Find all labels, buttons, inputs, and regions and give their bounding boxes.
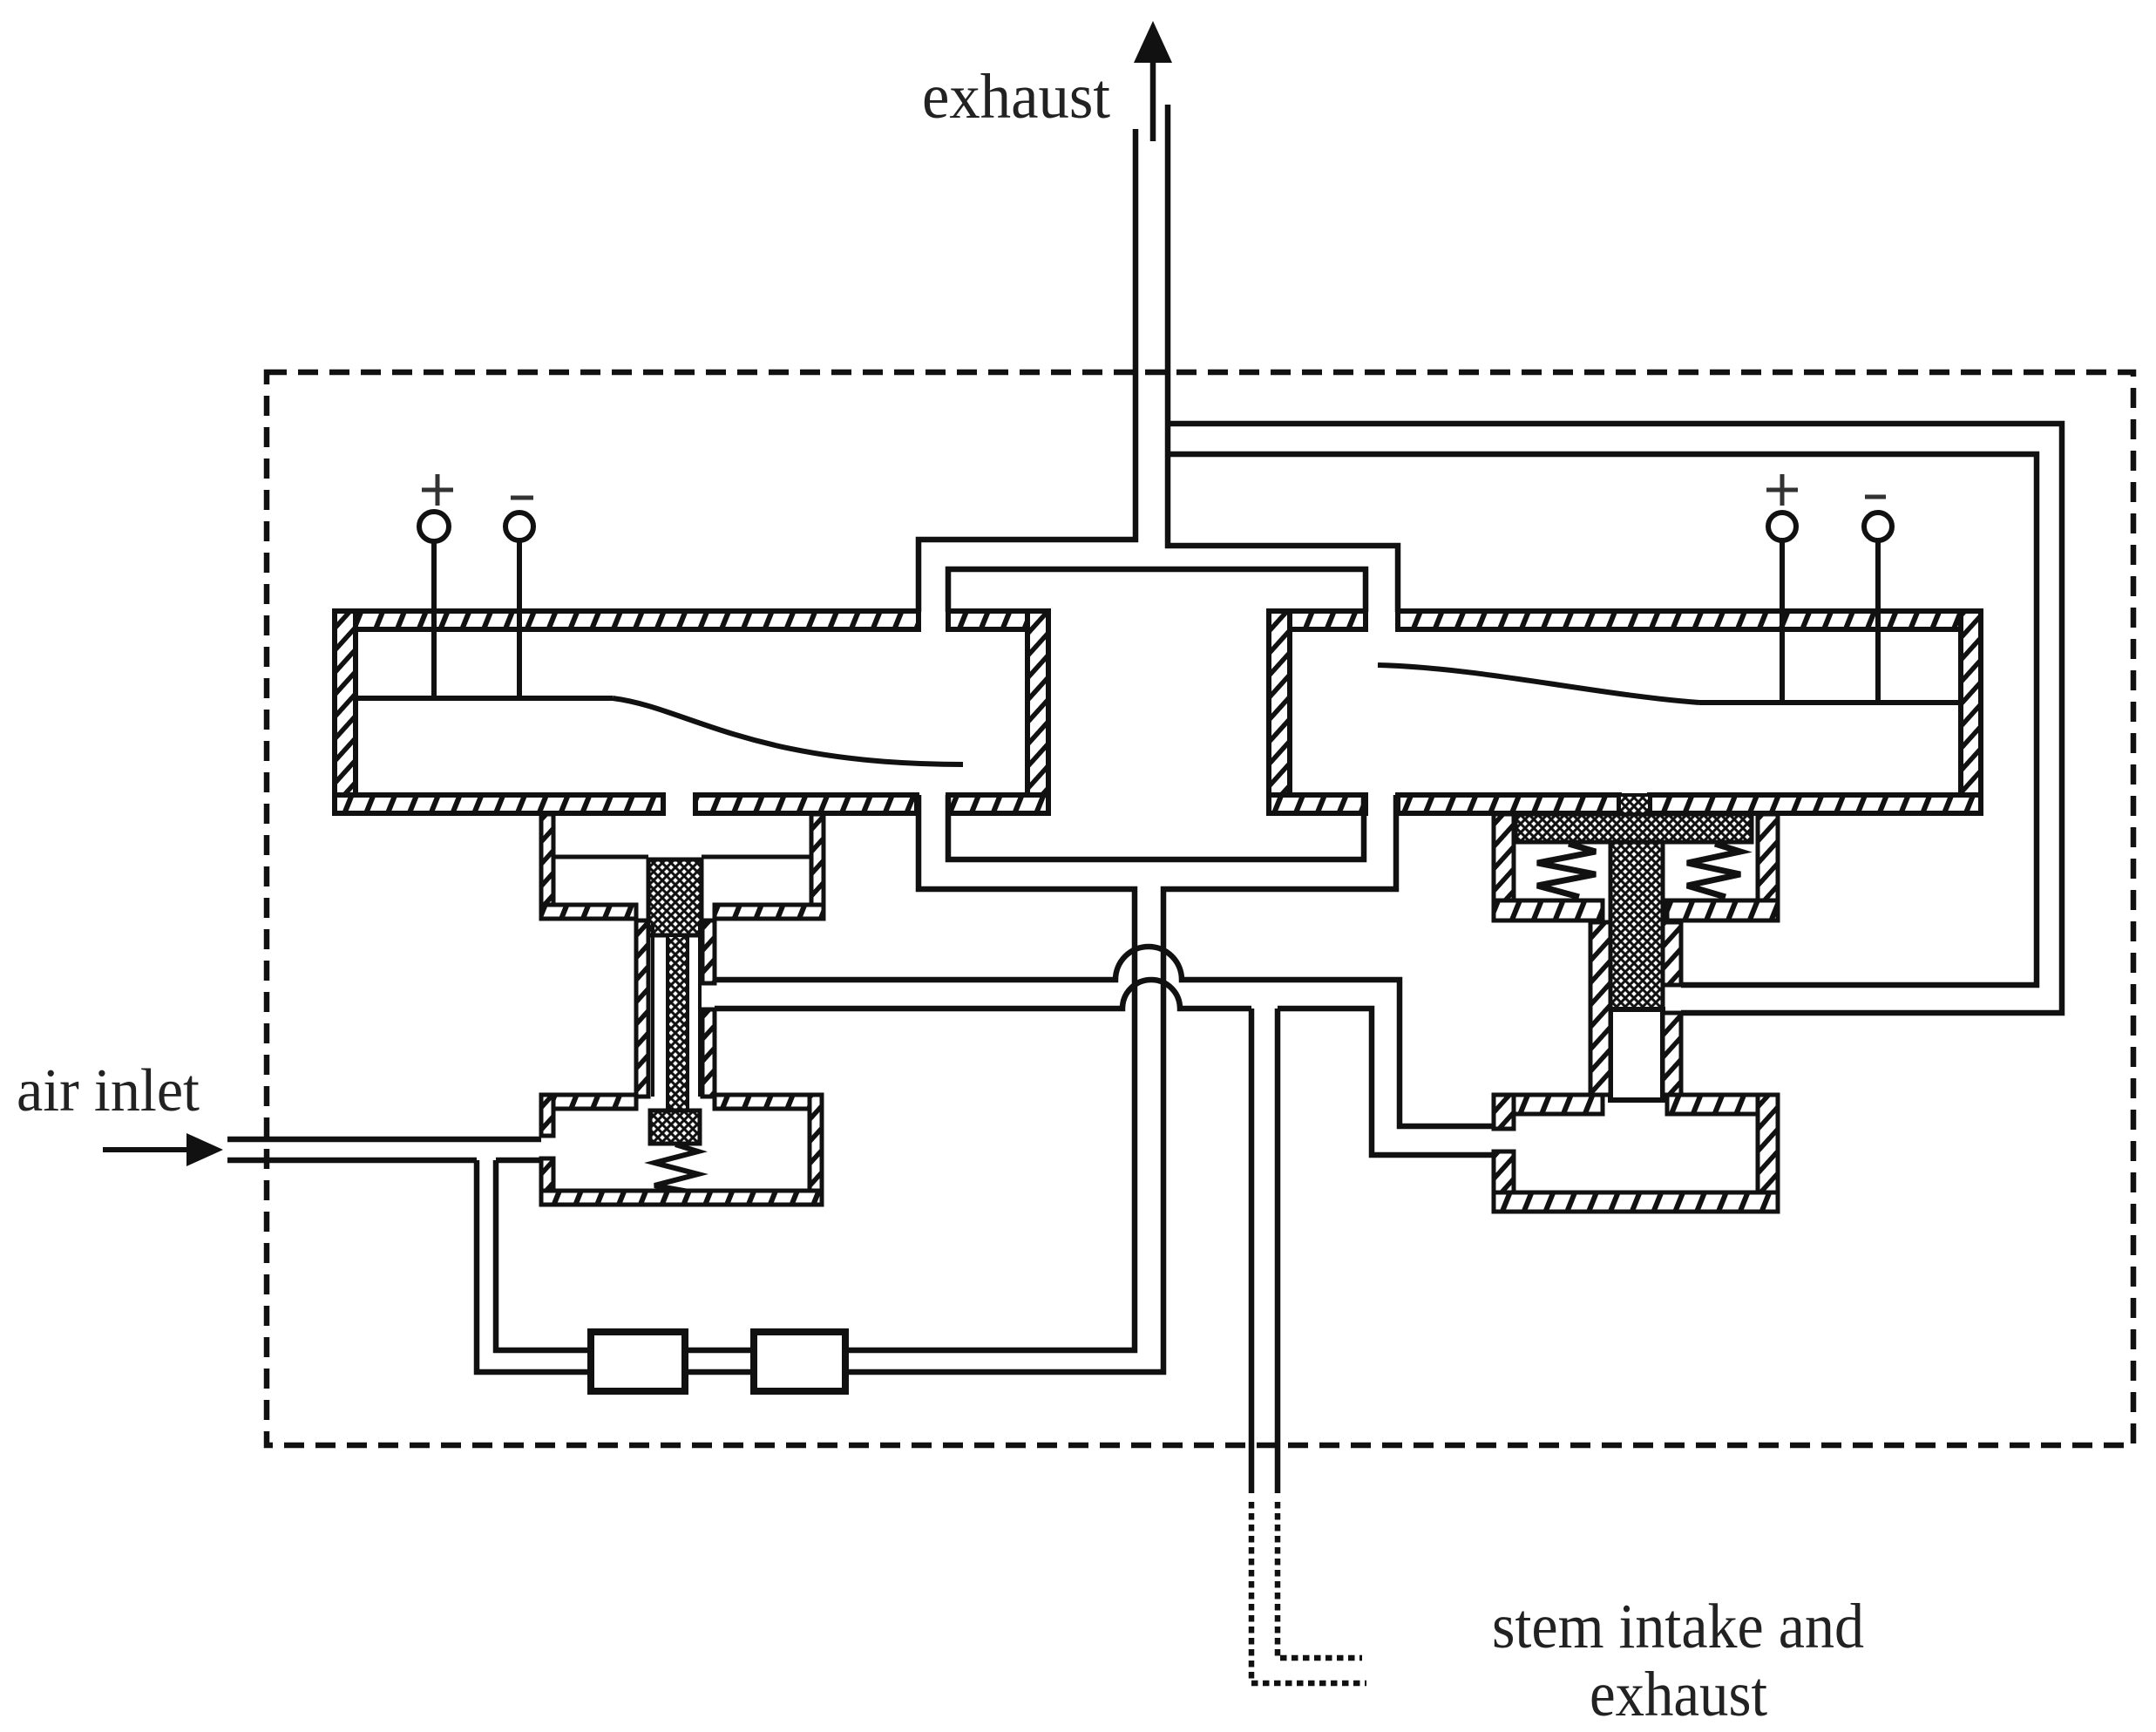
right terminal - circle <box>1864 513 1892 540</box>
restrictor 2 <box>754 1332 845 1391</box>
left terminal + circle <box>419 512 449 541</box>
air inlet pipe top wall <box>227 1137 541 1143</box>
left stem guide right upper <box>702 920 715 983</box>
left diaphragm plate right <box>702 855 811 859</box>
air inlet pipe bottom wall right <box>496 1158 541 1164</box>
left chamber right wall <box>1027 611 1048 813</box>
right lower chamber left wall lower <box>1494 1151 1514 1212</box>
left air chamber right wall <box>810 1095 822 1205</box>
stem pipe right wall <box>1275 1009 1281 1493</box>
left diaphragm plate left <box>553 855 648 859</box>
left stem guide right lower <box>702 1009 715 1097</box>
left terminal - circle <box>505 513 533 540</box>
left flapper curve <box>613 698 963 764</box>
right plunger stem <box>1610 842 1663 1009</box>
svg-text:exhaust: exhaust <box>1590 1659 1767 1729</box>
left chamber top wall right piece <box>948 611 1048 629</box>
left air chamber left wall upper <box>541 1095 553 1136</box>
air inlet arrow <box>103 1133 223 1166</box>
left terminal + stem <box>431 540 437 698</box>
right chamber top wall <box>1398 611 1981 629</box>
svg-text:air inlet: air inlet <box>17 1057 200 1124</box>
right chamber bottom wall left piece <box>1269 795 1366 813</box>
enclosure dashed boundary <box>267 372 2133 1445</box>
mid channel inner wall <box>948 795 1364 859</box>
left stem bore left <box>651 922 654 1097</box>
air inlet pipe bottom wall left <box>227 1158 477 1164</box>
left plunger head <box>648 859 702 935</box>
left chamber bottom wall (left of nozzle) <box>335 795 663 813</box>
svg-text:exhaust: exhaust <box>922 61 1110 132</box>
left flapper plate <box>356 696 613 701</box>
feedback channel inner wall <box>1168 454 2037 985</box>
stem pipe dotted left <box>1251 1502 1366 1683</box>
right spring left <box>1537 844 1596 897</box>
left air chamber top right <box>715 1095 822 1109</box>
left plunger stem <box>668 935 688 1111</box>
exhaust tube wall right <box>1168 105 1398 612</box>
lower channel outer wall (down pipe to right port) <box>477 795 1396 1372</box>
left valve poppet <box>650 1111 700 1144</box>
right flapper curve <box>1378 665 1699 703</box>
right stem guide right upper <box>1663 922 1681 985</box>
right plus sign <box>1766 474 1798 506</box>
left air chamber top left <box>541 1095 636 1109</box>
right spring right <box>1687 844 1740 897</box>
top channel inner wall <box>948 569 1366 612</box>
right stem guide left <box>1590 922 1610 1095</box>
right chamber top wall left piece <box>1269 611 1366 629</box>
right lower chamber left wall upper <box>1494 1095 1514 1129</box>
right lower chamber top left <box>1494 1095 1603 1114</box>
right chamber left wall <box>1269 611 1290 813</box>
right terminal - stem <box>1875 540 1881 703</box>
crossover channel lower wall with bridge <box>715 980 1494 1155</box>
crossover channel upper wall with bridge <box>715 947 1494 1126</box>
left air chamber bottom wall <box>541 1191 822 1205</box>
left nozzle box bottom right <box>715 905 824 919</box>
right spring box bottom right <box>1667 900 1778 920</box>
left chamber bottom wall right piece <box>948 795 1048 813</box>
exhaust tube wall left <box>919 129 1136 612</box>
svg-text:stem intake and: stem intake and <box>1492 1591 1864 1661</box>
right minus sign <box>1865 495 1886 499</box>
stem pipe left wall <box>1249 1009 1255 1493</box>
right terminal + circle <box>1768 513 1796 540</box>
right stem rod <box>1610 1009 1663 1100</box>
left nozzle box left wall <box>541 814 553 919</box>
right chamber bottom wall (right part) <box>1650 795 1981 813</box>
left air chamber left wall lower <box>541 1158 553 1205</box>
right terminal + stem <box>1780 540 1785 703</box>
right chamber bottom wall (left of plunger) <box>1398 795 1619 813</box>
left terminal - stem <box>517 540 522 698</box>
left valve spring <box>654 1144 698 1192</box>
right lower chamber top right <box>1667 1095 1778 1114</box>
left plus sign <box>422 474 453 506</box>
left chamber bottom wall (right of nozzle) <box>695 795 917 813</box>
right chamber right wall <box>1961 611 1981 813</box>
right spring box bottom left <box>1494 900 1603 920</box>
lower channel upper wall (left port to bottom pipe) <box>496 795 1135 1350</box>
right spring box right wall <box>1758 814 1778 920</box>
right lower chamber right wall <box>1758 1095 1778 1212</box>
left nozzle box right wall <box>811 814 824 919</box>
right flapper plate <box>1699 700 1961 705</box>
left stem bore right <box>698 922 702 1097</box>
right spring box left wall <box>1494 814 1514 920</box>
right plunger plate <box>1515 814 1752 842</box>
right stem guide right lower <box>1663 1013 1681 1095</box>
right lower chamber bottom wall <box>1494 1192 1778 1212</box>
exhaust arrow <box>1134 21 1172 141</box>
right plunger nub <box>1619 795 1650 814</box>
left chamber top wall <box>335 611 919 629</box>
feedback channel outer wall <box>1168 424 2062 1013</box>
left minus sign <box>511 496 533 500</box>
left chamber left wall <box>335 611 356 813</box>
left nozzle box bottom left <box>541 905 636 919</box>
restrictor 1 <box>591 1332 685 1391</box>
left stem guide left <box>636 920 648 1097</box>
stem pipe dotted right <box>1278 1502 1362 1658</box>
